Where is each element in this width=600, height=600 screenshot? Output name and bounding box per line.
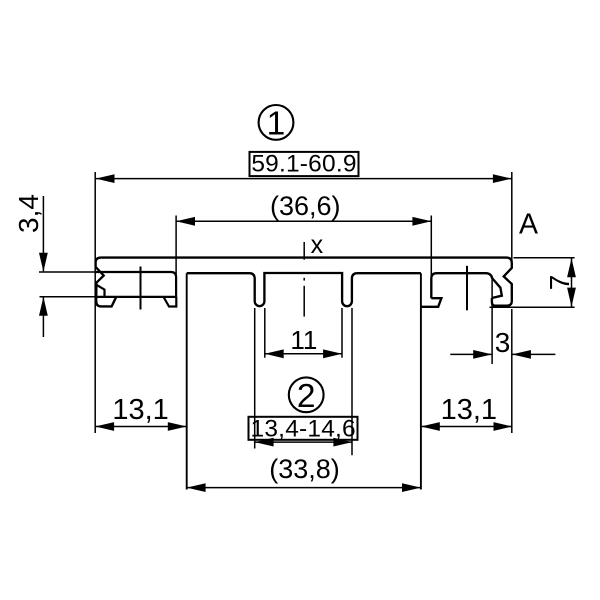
- extension line box2 right cup: [351, 308, 353, 455]
- centerline x: [303, 242, 305, 260]
- balloon circle 2: [289, 377, 324, 412]
- svg-text:2: 2: [297, 378, 316, 415]
- svg-text:13,4-14,6: 13,4-14,6: [251, 416, 356, 443]
- right block center mark: [466, 266, 468, 311]
- extension line 36,6 left: [175, 216, 177, 298]
- extension lines 7: [514, 257, 575, 259]
- svg-text:x: x: [311, 231, 324, 259]
- profile right edge with V-notch and foot: [492, 263, 512, 306]
- right fin wall: [420, 273, 422, 489]
- extension line box2 left cup: [254, 308, 256, 449]
- dimension line (36,6): [176, 220, 431, 222]
- svg-text:3,4: 3,4: [13, 194, 44, 233]
- dimension line 59.1-60.9: [95, 178, 512, 180]
- svg-text:1: 1: [267, 105, 286, 142]
- svg-text:13,1: 13,1: [441, 394, 497, 426]
- svg-text:59.1-60.9: 59.1-60.9: [251, 151, 356, 178]
- dimension line 11: [265, 353, 342, 355]
- extension line 59.1 left full: [94, 172, 96, 433]
- profile left inner toe: [164, 297, 177, 307]
- inspection box 59.1-60.9: [250, 152, 359, 176]
- profile left slot floor: [40, 296, 96, 298]
- svg-text:7: 7: [544, 275, 575, 291]
- dimension line (33,8): [187, 487, 421, 489]
- profile left lip barb: [96, 285, 104, 297]
- svg-text:11: 11: [290, 325, 317, 355]
- extension lines 11: [264, 308, 266, 358]
- left fin wall: [186, 273, 188, 489]
- extension line 36,6 right: [430, 216, 432, 298]
- right inner toe: [421, 298, 441, 307]
- profile left slot roof: [39, 271, 95, 273]
- dimension line 13,1 right: [421, 426, 513, 428]
- dimension 3 outside arrows: [450, 353, 492, 355]
- dimension 3,4 upper line and arrow: [42, 196, 44, 271]
- balloon circle 1: [259, 105, 294, 140]
- dimension line 13,1 left: [95, 426, 187, 428]
- dimension 3,4 lower line and arrow: [42, 297, 44, 337]
- svg-text:3: 3: [495, 327, 511, 358]
- svg-text:13,1: 13,1: [112, 394, 168, 426]
- dimension line 7: [571, 258, 573, 308]
- extension line 3 left: [491, 279, 493, 364]
- profile top edge: [96, 258, 512, 263]
- svg-text:(33,8): (33,8): [269, 454, 340, 484]
- extension line 59.1 right / A: [511, 172, 513, 268]
- dimension line 13,4-14,6: [255, 441, 353, 443]
- plate underside with screw cups: [187, 273, 421, 306]
- svg-text:A: A: [519, 208, 538, 240]
- svg-text:(36,6): (36,6): [270, 191, 341, 221]
- profile left edge with V-notch and toe: [96, 263, 117, 307]
- extension line right edge lower: [511, 309, 513, 433]
- right block slot wall roof and barb: [431, 273, 502, 298]
- inspection box 13.4-14.6: [249, 417, 358, 440]
- left block center mark: [140, 267, 142, 310]
